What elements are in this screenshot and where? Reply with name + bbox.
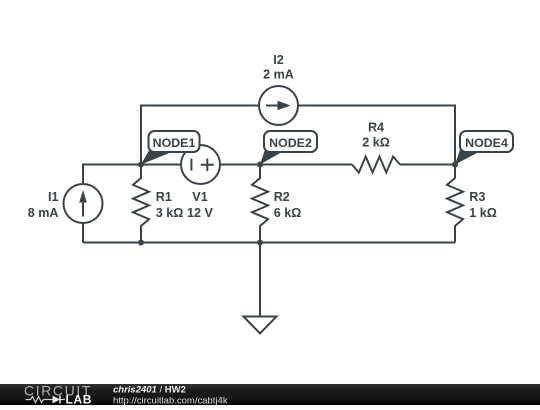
svg-text:R4: R4	[368, 121, 384, 135]
svg-text:NODE2: NODE2	[269, 136, 312, 150]
label I2 value	[263, 53, 294, 82]
label R2 value	[274, 190, 302, 220]
wire: I2 right to top-right corner down to NODE4	[298, 106, 455, 165]
junction node at NODE2	[257, 162, 263, 168]
junction: R2 bottom / ground tap	[257, 240, 263, 246]
wire: bottom rail	[83, 242, 455, 244]
svg-text:3 kΩ: 3 kΩ	[156, 206, 184, 220]
current source I2	[259, 86, 298, 125]
current source I1	[64, 184, 103, 223]
label R4 value	[362, 121, 390, 150]
wire: R4 right lead to NODE4	[400, 164, 455, 166]
resistor R1	[133, 165, 149, 243]
node NODE2	[260, 131, 317, 165]
svg-text:NODE4: NODE4	[465, 136, 508, 150]
resistor R3	[447, 165, 463, 243]
wire: left riser from I1 top to main row corner, then to NODE1	[83, 165, 141, 185]
svg-text:1 kΩ: 1 kΩ	[469, 206, 497, 220]
resistor R2	[252, 165, 268, 243]
label V1 value	[187, 190, 214, 220]
voltage source V1	[181, 145, 220, 184]
svg-text:NODE1: NODE1	[153, 136, 196, 150]
svg-text:12 V: 12 V	[187, 206, 214, 220]
svg-text:R3: R3	[469, 190, 485, 204]
label R1 value	[156, 190, 184, 220]
label R3 value	[469, 190, 497, 220]
wire: ground lead from bottom rail	[259, 243, 261, 317]
wire: V1 right terminal to NODE2	[220, 164, 261, 166]
svg-text:I2: I2	[273, 53, 284, 67]
junction node at NODE1	[138, 162, 144, 168]
label I1 value	[28, 190, 59, 220]
junction: R1 bottom	[138, 240, 144, 246]
svg-text:V1: V1	[192, 190, 207, 204]
svg-text:8 mA: 8 mA	[28, 206, 59, 220]
svg-text:chris2401 / HW2: chris2401 / HW2	[113, 385, 186, 396]
svg-text:R2: R2	[274, 190, 290, 204]
svg-text:2 mA: 2 mA	[263, 68, 294, 82]
node NODE1	[141, 131, 200, 165]
wire: NODE2 to R4 left lead	[260, 164, 352, 166]
node NODE4	[455, 131, 513, 165]
svg-text:http://circuitlab.com/cabtj4k: http://circuitlab.com/cabtj4k	[113, 396, 228, 405]
svg-text:LAB: LAB	[66, 393, 93, 406]
resistor R4	[352, 157, 400, 173]
wire: riser NODE1 up to top rail toward I2	[141, 106, 259, 165]
junction node at NODE4	[452, 162, 458, 168]
svg-text:R1: R1	[156, 190, 172, 204]
wire: I1 bottom riser	[82, 223, 84, 243]
ground	[244, 317, 277, 334]
svg-text:2 kΩ: 2 kΩ	[362, 136, 390, 150]
svg-text:6 kΩ: 6 kΩ	[274, 206, 302, 220]
wire: NODE1 to V1 left terminal	[141, 164, 182, 166]
svg-text:I1: I1	[48, 190, 59, 204]
